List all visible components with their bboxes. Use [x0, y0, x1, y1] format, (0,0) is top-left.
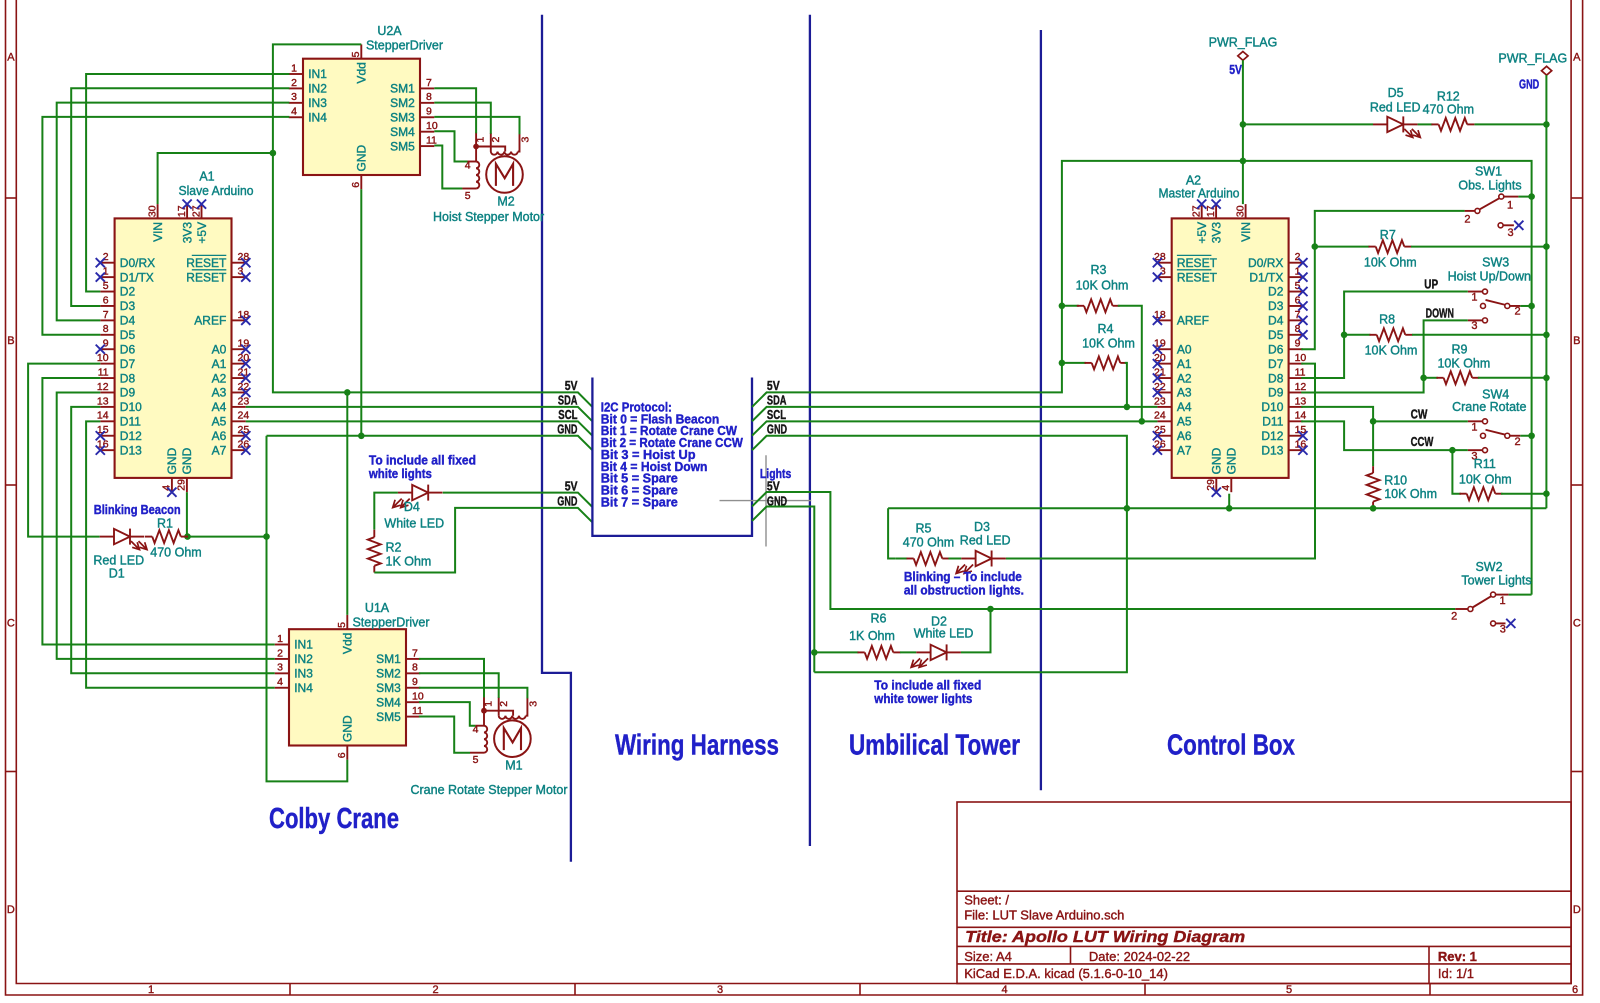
- svg-text:9: 9: [103, 338, 109, 350]
- wire 5V net: U2A Vdd to junction and harness: [273, 44, 593, 407]
- A2 pin 30 VIN: [1245, 204, 1247, 218]
- wire 5V harness right to control box rail: [752, 161, 1532, 595]
- svg-text:Rev: 1: Rev: 1: [1438, 949, 1477, 964]
- svg-text:10K Ohm: 10K Ohm: [1076, 278, 1129, 292]
- A1 pin 21 A2: [232, 377, 246, 379]
- svg-text:RESET: RESET: [1177, 256, 1218, 270]
- svg-text:A3: A3: [1177, 386, 1192, 400]
- wire U2A IN4 from A1 D5: [42, 117, 289, 335]
- SW1 pin 3 contact: [1498, 223, 1503, 228]
- svg-text:GND: GND: [165, 447, 179, 474]
- svg-text:A5: A5: [1177, 415, 1192, 429]
- wire U1A SM3 to M1 pin 3: [419, 688, 528, 699]
- junction dot R9 left: [1420, 375, 1427, 382]
- wire U1A SM1 to M1 pin 1: [419, 659, 484, 698]
- wire GND row to R5: [888, 508, 895, 558]
- svg-text:D7: D7: [120, 357, 136, 371]
- svg-text:D10: D10: [1261, 400, 1283, 414]
- svg-text:D1: D1: [109, 567, 125, 581]
- motor M1 pin 5 lead: [470, 752, 484, 754]
- svg-text:Vdd: Vdd: [341, 633, 355, 654]
- svg-text:6: 6: [336, 752, 348, 758]
- svg-text:2: 2: [498, 701, 510, 707]
- junction dot GND/R9 right: [1543, 375, 1550, 382]
- svg-text:RESET: RESET: [186, 270, 227, 284]
- U1A pin 5 Vdd: [346, 615, 348, 629]
- wire U2A SM4 to M2 pin 4: [434, 131, 467, 161]
- svg-text:30: 30: [1234, 205, 1246, 217]
- SW3 pin 1 contact: [1468, 291, 1483, 293]
- svg-text:17: 17: [176, 205, 188, 217]
- arduino A1 body: [115, 218, 232, 478]
- A1 pin 27 +5V: [201, 204, 203, 218]
- A2 pin 18 AREF: [1157, 319, 1171, 321]
- svg-text:D: D: [7, 904, 15, 916]
- svg-text:SCL: SCL: [558, 407, 577, 422]
- svg-text:D0/RX: D0/RX: [120, 256, 155, 270]
- svg-text:R8: R8: [1379, 313, 1395, 327]
- svg-text:Crane Rotate: Crane Rotate: [1452, 400, 1526, 414]
- A2 pin 2 D0/RX: [1289, 262, 1303, 264]
- svg-text:3: 3: [291, 91, 297, 103]
- A2 pin 1 D1/TX: [1289, 276, 1303, 278]
- A1 pin 12 D9: [100, 391, 114, 393]
- wire SW1 pin2 to A2 D6 with R7 tap: [1301, 211, 1464, 349]
- svg-text:D9: D9: [1268, 386, 1284, 400]
- svg-text:A1: A1: [212, 357, 227, 371]
- svg-text:UP: UP: [1424, 277, 1438, 292]
- A2 pin 24 A5: [1157, 420, 1171, 422]
- A1 pin 29 GND: [186, 478, 188, 492]
- svg-text:U2A: U2A: [377, 24, 402, 38]
- wire GND row (control box): [888, 507, 1546, 509]
- A1 pin 9 D6: [100, 348, 114, 350]
- svg-text:R12: R12: [1437, 90, 1460, 104]
- U2A pin 4 IN4: [289, 116, 303, 118]
- junction dot CW/R10: [1370, 418, 1377, 425]
- U2A pin 6 GND: [360, 175, 362, 189]
- svg-text:M1: M1: [505, 759, 522, 773]
- svg-text:11: 11: [412, 705, 423, 717]
- svg-text:SM4: SM4: [390, 125, 415, 139]
- motor M2 circle: [486, 156, 523, 193]
- svg-text:10K Ohm: 10K Ohm: [1459, 473, 1512, 487]
- arduino A2 body: [1172, 218, 1289, 478]
- svg-text:SM5: SM5: [376, 710, 401, 724]
- junction dot U2A GND: [358, 433, 365, 440]
- wire U2A IN3 from A1 D4: [57, 103, 290, 321]
- junction dot 5V to U1A Vdd: [344, 389, 351, 396]
- svg-text:23: 23: [1154, 395, 1166, 407]
- A1 pin 19 A0: [232, 348, 246, 350]
- junction dot CCW/R11: [1449, 447, 1456, 454]
- svg-text:9: 9: [412, 676, 418, 688]
- svg-text:SCL: SCL: [767, 407, 786, 422]
- svg-text:10K Ohm: 10K Ohm: [1082, 337, 1135, 351]
- svg-text:A6: A6: [212, 429, 227, 443]
- wire SW3 pin2 to 5V vertical: [1520, 305, 1531, 307]
- svg-text:470 Ohm: 470 Ohm: [150, 546, 201, 560]
- svg-text:IN2: IN2: [308, 82, 327, 96]
- svg-text:R5: R5: [916, 521, 932, 535]
- section divider line (Colby Crane / Wiring Harness): [542, 15, 571, 862]
- svg-text:3: 3: [717, 984, 723, 996]
- title block frame: [957, 802, 1571, 984]
- motor M1 pin 2 lead: [498, 697, 500, 716]
- svg-text:5: 5: [1295, 280, 1301, 292]
- svg-text:IN4: IN4: [308, 110, 327, 124]
- svg-text:Slave Arduino: Slave Arduino: [179, 184, 254, 198]
- svg-text:D6: D6: [1268, 342, 1284, 356]
- A1 pin 8 D5: [100, 334, 114, 336]
- svg-text:3: 3: [238, 266, 244, 278]
- svg-text:D5: D5: [120, 328, 136, 342]
- junction dot VIN/5V: [270, 150, 277, 157]
- svg-text:D10: D10: [120, 400, 142, 414]
- svg-text:R1: R1: [157, 517, 173, 531]
- A1 pin 10 D7: [100, 363, 114, 365]
- power flag PWR_FLAG (GND): [1542, 66, 1552, 75]
- svg-text:4: 4: [277, 676, 283, 688]
- svg-text:Blinking Beacon: Blinking Beacon: [94, 503, 181, 517]
- wire SCL from A1 A5 to harness: [246, 421, 593, 435]
- A1 pin 2 D0/RX: [100, 262, 114, 264]
- U1A pin 7 SM1: [406, 658, 420, 660]
- svg-text:A2: A2: [212, 371, 227, 385]
- wire lights GND to lower run: [813, 652, 815, 672]
- svg-text:1: 1: [1500, 595, 1506, 607]
- svg-text:StepperDriver: StepperDriver: [352, 616, 429, 630]
- svg-text:R4: R4: [1098, 322, 1114, 336]
- svg-text:A4: A4: [212, 400, 227, 414]
- svg-text:1: 1: [103, 266, 109, 278]
- svg-text:White LED: White LED: [384, 516, 444, 530]
- wire GND net: U2A GND down: [360, 189, 362, 435]
- svg-text:7: 7: [103, 309, 109, 321]
- svg-text:3: 3: [1471, 320, 1477, 332]
- svg-text:CCW: CCW: [1411, 434, 1434, 449]
- wire PWR_FLAG 5V down to A2 VIN: [1242, 60, 1244, 204]
- junction dot A2 GND: [1226, 505, 1233, 512]
- A2 pin 14 D11: [1289, 420, 1303, 422]
- wire CCW: A2 D11 to SW4 pin3: [1301, 421, 1468, 450]
- resistor R2 1K Ohm (vertical): [368, 537, 381, 566]
- svg-text:SM2: SM2: [376, 667, 401, 681]
- svg-text:To include all fixed: To include all fixed: [369, 454, 476, 468]
- svg-text:A4: A4: [1177, 400, 1192, 414]
- svg-text:D4: D4: [404, 500, 420, 514]
- svg-text:17: 17: [1205, 205, 1217, 217]
- svg-text:SM3: SM3: [376, 681, 401, 695]
- U2A pin 5 Vdd: [360, 44, 362, 58]
- svg-text:A3: A3: [212, 386, 227, 400]
- svg-text:4: 4: [291, 106, 297, 118]
- wire D2 to SW2 branch: [961, 609, 991, 652]
- A2 pin 27 +5V: [1201, 204, 1203, 218]
- svg-text:A1: A1: [199, 170, 214, 184]
- svg-text:14: 14: [97, 410, 109, 422]
- wire UP: A2 D8 to SW3 pin1 with R8 tap: [1301, 292, 1468, 379]
- svg-text:D5: D5: [1268, 328, 1284, 342]
- svg-text:10K Ohm: 10K Ohm: [1364, 255, 1417, 269]
- A1 pin 22 A3: [232, 391, 246, 393]
- wire SCL harness right to A2 A5: [752, 421, 1157, 435]
- svg-text:VIN: VIN: [1239, 222, 1253, 242]
- A1 pin 26 A7: [232, 449, 246, 451]
- svg-text:3V3: 3V3: [180, 222, 194, 244]
- svg-text:A: A: [1573, 52, 1581, 64]
- U2A pin 8 SM2: [420, 102, 434, 104]
- motor M2 pin 1 junction dot: [473, 144, 479, 150]
- A1 pin 23 A4: [232, 406, 246, 408]
- junction dot R10/GND row: [1370, 505, 1377, 512]
- gray crosshair artifact: [720, 455, 812, 546]
- svg-text:D12: D12: [1261, 429, 1283, 443]
- resistor R5 470 Ohm: [895, 558, 907, 560]
- svg-text:RESET: RESET: [186, 256, 227, 270]
- svg-text:A0: A0: [1177, 342, 1192, 356]
- svg-text:GND: GND: [355, 145, 369, 172]
- motor M1 pin 1 lead and center tap: [483, 697, 485, 726]
- svg-text:1: 1: [148, 984, 154, 996]
- svg-text:B: B: [1573, 335, 1580, 347]
- svg-text:R11: R11: [1474, 457, 1496, 471]
- wire U2A SM3 to M2 pin 3: [434, 117, 519, 134]
- svg-text:A2: A2: [1177, 371, 1192, 385]
- svg-text:2: 2: [277, 647, 283, 659]
- svg-text:D3: D3: [1268, 299, 1284, 313]
- svg-text:4: 4: [1220, 485, 1232, 491]
- junction dot 5V/rail: [1240, 158, 1247, 165]
- A2 pin 11 D8: [1289, 377, 1303, 379]
- A1 pin 18 AREF: [232, 319, 246, 321]
- diode D2 White LED: [900, 651, 916, 653]
- svg-text:10K Ohm: 10K Ohm: [1437, 357, 1490, 371]
- U2A pin 2 IN2: [289, 87, 303, 89]
- A1 pin 3 RESET: [232, 276, 246, 278]
- wire U1A IN3 from A1 D10: [71, 407, 275, 673]
- A2 pin 29 GND: [1215, 478, 1217, 492]
- svg-text:Vdd: Vdd: [355, 62, 369, 83]
- svg-text:470 Ohm: 470 Ohm: [903, 536, 954, 550]
- svg-text:3: 3: [520, 137, 532, 143]
- U2A pin 3 IN3: [289, 102, 303, 104]
- A2 pin 10 D7: [1289, 363, 1303, 365]
- junction dot R7 left: [1312, 243, 1319, 250]
- svg-text:3: 3: [277, 662, 283, 674]
- svg-text:Hoist Up/Down: Hoist Up/Down: [1448, 269, 1531, 283]
- svg-text:B: B: [7, 335, 14, 347]
- svg-text:IN3: IN3: [308, 96, 327, 110]
- svg-text:Red LED: Red LED: [1370, 101, 1421, 115]
- A1 pin 6 D3: [100, 305, 114, 307]
- svg-text:A6: A6: [1177, 429, 1192, 443]
- resistor R8 10K Ohm: [1344, 334, 1370, 336]
- svg-text:PWR_FLAG: PWR_FLAG: [1498, 52, 1567, 66]
- resistor R6 1K Ohm: [814, 651, 858, 653]
- A2 pin 8 D5: [1289, 334, 1303, 336]
- svg-text:Control Box: Control Box: [1167, 730, 1295, 762]
- junction dot GND row / lights GND riser: [1124, 505, 1131, 512]
- diode D3 Red LED: [949, 558, 962, 560]
- wire SW1 pin1 to 5V vertical: [1518, 196, 1531, 198]
- wire SW4 pin2 to 5V vertical: [1520, 435, 1531, 437]
- svg-text:470 Ohm: 470 Ohm: [1423, 103, 1474, 117]
- A1 pin 13 D10: [100, 406, 114, 408]
- stepper driver U1A body: [289, 629, 406, 745]
- svg-text:4: 4: [1001, 984, 1007, 996]
- svg-text:30: 30: [146, 205, 158, 217]
- resistor R9 10K Ohm: [1424, 377, 1438, 379]
- svg-text:AREF: AREF: [194, 314, 226, 328]
- svg-text:7: 7: [412, 647, 418, 659]
- svg-text:Red LED: Red LED: [93, 554, 144, 568]
- svg-text:10: 10: [412, 691, 424, 703]
- svg-text:7: 7: [1295, 309, 1301, 321]
- svg-text:6: 6: [103, 294, 109, 306]
- svg-text:8: 8: [103, 323, 109, 335]
- svg-text:GND: GND: [1210, 447, 1224, 474]
- SW4 lever and common pin 2: [1481, 433, 1486, 438]
- A2 pin 5 D2: [1289, 291, 1303, 293]
- stepper driver U2A body: [303, 59, 420, 175]
- A2 pin 20 A1: [1157, 363, 1171, 365]
- svg-text:6: 6: [350, 182, 362, 188]
- svg-text:GND: GND: [180, 447, 194, 474]
- svg-text:SM5: SM5: [390, 139, 415, 153]
- svg-text:white lights: white lights: [368, 467, 432, 481]
- svg-text:CW: CW: [1411, 407, 1428, 422]
- wire beacon R1 to GND vertical: [188, 536, 267, 538]
- svg-text:R10: R10: [1384, 474, 1407, 488]
- svg-text:3: 3: [1508, 227, 1514, 239]
- wire U2A IN2 from A1 D3: [71, 88, 289, 306]
- svg-text:2: 2: [1515, 306, 1521, 318]
- svg-text:D13: D13: [120, 443, 142, 457]
- A1 pin 20 A1: [232, 363, 246, 365]
- junction dot GND/R11 right: [1543, 490, 1550, 497]
- wire CW: A2 D10 down and to SW4 pin1: [1301, 407, 1468, 421]
- motor M1 horizontal winding: [499, 716, 526, 719]
- wire SDA from A1 A4 to harness: [246, 407, 593, 421]
- svg-text:27: 27: [1191, 205, 1203, 217]
- svg-text:2: 2: [432, 984, 438, 996]
- svg-text:R6: R6: [871, 611, 887, 625]
- A2 pin 28 RESET: [1157, 262, 1171, 264]
- SW2 lever and common pin 2: [1455, 608, 1468, 610]
- svg-text:27: 27: [190, 205, 202, 217]
- motor M1 vertical winding: [484, 726, 487, 753]
- motor M1 pin 3 lead: [526, 698, 528, 716]
- U1A pin 4 IN4: [275, 687, 289, 689]
- wire 5V lights loop with D4 and R2: [443, 493, 593, 507]
- svg-text:2: 2: [103, 251, 109, 263]
- A1 pin 25 A6: [232, 435, 246, 437]
- svg-text:Date: 2024-02-22: Date: 2024-02-22: [1089, 949, 1190, 964]
- svg-text:1: 1: [1507, 200, 1513, 212]
- svg-text:24: 24: [1154, 410, 1166, 422]
- svg-text:D1/TX: D1/TX: [1249, 270, 1283, 284]
- junction dot 5V riser / R4 left: [1059, 360, 1066, 367]
- svg-text:9: 9: [426, 106, 432, 118]
- svg-text:C: C: [1573, 618, 1581, 630]
- wire D5 to R12: [1418, 123, 1433, 125]
- svg-text:5: 5: [465, 190, 471, 202]
- motor M2 vertical winding: [476, 162, 479, 189]
- U2A pin 10 SM4: [420, 131, 434, 133]
- svg-text:D: D: [1573, 904, 1581, 916]
- svg-text:3: 3: [1160, 266, 1166, 278]
- U1A pin 1 IN1: [275, 644, 289, 646]
- svg-text:SM4: SM4: [376, 695, 401, 709]
- svg-text:1K Ohm: 1K Ohm: [849, 629, 895, 643]
- svg-text:GND: GND: [1225, 447, 1239, 474]
- svg-text:6: 6: [1572, 984, 1578, 996]
- junction dot beacon/GND: [263, 533, 270, 540]
- wire beacon GND down to U1A GND: [267, 537, 348, 782]
- svg-text:10: 10: [97, 352, 109, 364]
- A1 pin 15 D12: [100, 435, 114, 437]
- svg-text:29: 29: [176, 479, 188, 491]
- svg-text:5V: 5V: [565, 478, 578, 493]
- junction dot R8 left: [1341, 332, 1348, 339]
- SW3 pin 3 contact: [1468, 319, 1483, 321]
- junction dot R4/SDA: [1124, 404, 1131, 411]
- junction dot 5V riser / R3 left: [1059, 303, 1066, 310]
- A2 pin 22 A3: [1157, 391, 1171, 393]
- wire U2A SM1 to M2 pin 1: [434, 88, 476, 133]
- wire U1A IN4 from A1 D11: [86, 421, 275, 687]
- resistor R7 10K Ohm: [1315, 246, 1370, 248]
- wire SW2 pin1 to 5V vertical end: [1509, 594, 1532, 596]
- svg-text:DOWN: DOWN: [1426, 306, 1454, 321]
- svg-text:12: 12: [1295, 381, 1307, 393]
- svg-text:3: 3: [528, 701, 540, 707]
- svg-text:8: 8: [1295, 323, 1301, 335]
- svg-text:1: 1: [291, 62, 297, 74]
- svg-text:11: 11: [1295, 366, 1306, 378]
- junction dot GND/R8 right: [1543, 332, 1550, 339]
- svg-text:10: 10: [1295, 352, 1307, 364]
- svg-text:13: 13: [97, 395, 109, 407]
- A2 pin 26 A7: [1157, 449, 1171, 451]
- U1A pin 6 GND: [346, 746, 348, 760]
- svg-text:4: 4: [161, 485, 173, 491]
- U1A pin 9 SM3: [406, 687, 420, 689]
- U2A pin 1 IN1: [289, 73, 303, 75]
- svg-text:29: 29: [1205, 479, 1217, 491]
- svg-text:1: 1: [483, 701, 495, 707]
- wire U2A SM2 to M2 pin 2: [434, 103, 491, 134]
- svg-text:Sheet: /: Sheet: /: [964, 893, 1009, 908]
- SW3 lever and common pin 2: [1481, 303, 1486, 308]
- A1 pin 16 D13: [100, 449, 114, 451]
- wire GND run to harness: [267, 436, 593, 450]
- svg-text:Umbilical Tower: Umbilical Tower: [849, 730, 1020, 762]
- wire U2A SM5 to M2 pin 5: [434, 146, 462, 189]
- svg-text:7: 7: [426, 77, 432, 89]
- svg-text:R3: R3: [1091, 263, 1107, 277]
- U2A pin 9 SM3: [420, 116, 434, 118]
- svg-text:+5V: +5V: [195, 222, 209, 244]
- svg-text:2: 2: [1451, 611, 1457, 623]
- A2 pin 13 D10: [1289, 406, 1303, 408]
- svg-text:5V: 5V: [565, 378, 578, 393]
- svg-text:Obs. Lights: Obs. Lights: [1458, 178, 1521, 192]
- svg-text:D4: D4: [120, 314, 136, 328]
- A1 pin 1 D1/TX: [100, 276, 114, 278]
- SW4 pin 3 contact: [1468, 449, 1483, 451]
